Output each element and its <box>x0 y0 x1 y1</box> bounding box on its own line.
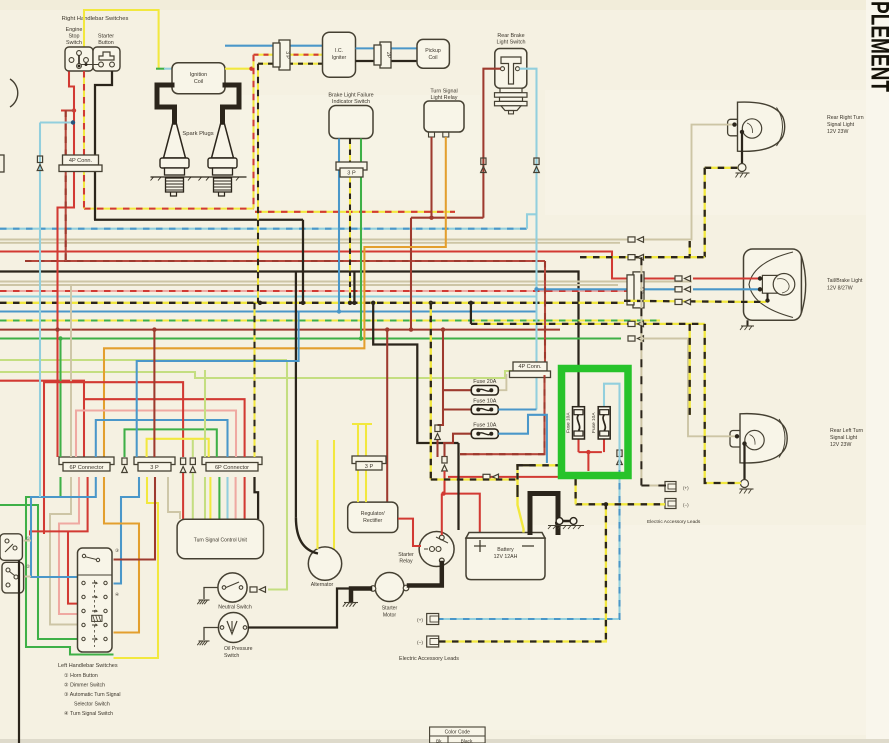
connector inline blue tail <box>675 287 691 293</box>
svg-text:Fuse 10A: Fuse 10A <box>591 412 597 433</box>
wire blue drop to 3P <box>137 312 299 458</box>
label brake light failure 2 <box>332 99 370 105</box>
svg-text:Fuse 10A: Fuse 10A <box>473 423 496 429</box>
wire blue branch right hook <box>114 477 140 584</box>
starter relay K2 <box>398 532 454 567</box>
wire yellow/black vertical x258 <box>257 64 259 303</box>
junction yellow/black x430 <box>429 301 433 305</box>
spark plug P2 <box>199 124 247 196</box>
connector inline pair x183 <box>180 458 186 473</box>
connector electric accessory lead plus right <box>665 482 689 492</box>
label selector switch <box>74 702 110 708</box>
wire blue to IC igniter <box>225 45 323 47</box>
wire light green neutral switch <box>268 360 287 590</box>
wire brown horizontal y330 <box>0 329 560 331</box>
connector electric accessory lead plus bottom <box>417 614 439 625</box>
wire dark red fuse 10A-3 feed <box>438 410 444 426</box>
svg-text:Coil: Coil <box>429 55 438 61</box>
svg-text:(+): (+) <box>683 486 689 491</box>
svg-text:Bk: Bk <box>436 739 442 743</box>
wire red engine stop down to 6P connector <box>61 72 74 111</box>
wire yellow/black failure switch <box>349 139 351 303</box>
svg-text:Light Relay: Light Relay <box>431 95 458 101</box>
junction yellow/black accessory <box>604 502 608 506</box>
wire red brown to regulator <box>386 330 388 503</box>
svg-text:Right Handlebar Switches: Right Handlebar Switches <box>62 16 129 22</box>
ground starter motor <box>343 603 358 607</box>
switch S3 rear brake light switch <box>495 49 528 114</box>
wire red junction green box <box>579 451 602 453</box>
svg-text:Left Handlebar Switches: Left Handlebar Switches <box>58 663 118 669</box>
wire light green to bowtie <box>192 440 194 457</box>
wire yellow/red right trunk horizontal <box>255 211 455 213</box>
svg-text:Igniter: Igniter <box>332 55 347 61</box>
wire yellow/black x689 lower <box>689 324 691 415</box>
connector 4P Conn left <box>59 155 102 172</box>
label rear brake light switch 2 <box>496 40 525 46</box>
junction black x373 <box>371 301 375 305</box>
svg-text:Spark Plugs: Spark Plugs <box>182 131 213 137</box>
connector inline pair fuse feed a <box>435 425 441 440</box>
wire black vertical x303 <box>302 220 304 303</box>
wire light green bowtie to unit <box>192 473 194 519</box>
ground neutral switch <box>197 600 209 604</box>
svg-text:12V 23W: 12V 23W <box>827 129 848 135</box>
wire yellow/black accessory minus right <box>576 503 665 505</box>
wire yellow/black vertical x705 up <box>704 168 706 257</box>
relay K1 turn signal light relay <box>424 101 464 132</box>
wire red 6P2 to unit <box>244 477 246 519</box>
wire yellow regulator 2 <box>365 470 367 502</box>
wire light blue horizontal to junction <box>40 121 73 123</box>
label turn signal light relay 2 <box>431 95 458 101</box>
svg-text:Color Code: Color Code <box>445 730 471 736</box>
switch S8 left handlebar switch block <box>78 548 121 652</box>
wire dark red above bowtie b <box>443 443 445 457</box>
wire red relay coil <box>398 519 421 546</box>
wire black rear right lamp ground <box>741 132 743 164</box>
wire yellow/black into tail light <box>624 301 766 302</box>
svg-text:Turn Signal Control Unit: Turn Signal Control Unit <box>194 538 248 544</box>
junction green failure <box>359 336 363 340</box>
wire grey horizontal y243 <box>0 242 620 244</box>
wire blue arch <box>96 420 228 457</box>
label rear brake light switch <box>497 33 524 39</box>
wire dark red horizontal y218 <box>411 217 483 219</box>
wire light green to 6P2 <box>204 370 206 457</box>
component brake light failure indicator switch U2 <box>329 106 373 139</box>
svg-text:③ Automatic Turn Signal: ③ Automatic Turn Signal <box>64 692 121 698</box>
terminal tail light yellow/black <box>765 298 769 302</box>
svg-text:3 P: 3 P <box>284 51 290 59</box>
cable battery minus to ground bolts <box>557 523 558 527</box>
wire orange conn1 right hook <box>104 477 139 633</box>
wire green stub into ignition coil <box>156 68 165 70</box>
wire red/dark dashed branch <box>66 110 74 112</box>
wire grey lamp feed rear left <box>643 339 739 437</box>
wire black drop to yellow/black feed <box>470 303 472 324</box>
label rear left turn signal 2 <box>830 435 858 441</box>
wire grey stub horn box <box>24 540 31 542</box>
svg-text:① Horn Button: ① Horn Button <box>64 673 98 679</box>
switch S5 oil pressure switch <box>218 613 252 660</box>
label PLEMENT vertical <box>866 1 889 92</box>
wire light blue rear brake switch right <box>520 69 537 410</box>
junction green x63 <box>58 336 62 340</box>
terminal tail light red <box>758 276 762 280</box>
wire yellow/red engine stop down <box>83 71 85 209</box>
wire red horizontal y477 <box>448 476 558 478</box>
wire light green stepped horizontal y372 <box>0 371 513 378</box>
switch S1 engine stop switch <box>65 47 93 71</box>
junction black x303 <box>301 301 305 305</box>
wire red junction to battery plus <box>442 494 480 533</box>
connector inline yellow/black tail <box>675 299 691 305</box>
wire yellow arch <box>147 439 209 457</box>
label auto turn signal <box>64 692 121 698</box>
wire yellow regulator 1 <box>357 470 359 502</box>
wire yellow/black link x689 upper <box>689 241 691 256</box>
wire pink arch <box>76 411 236 458</box>
connector inline pair x124 <box>122 458 128 473</box>
connector inline red tail <box>675 276 691 282</box>
wire yellow engine stop to coil top <box>84 10 159 69</box>
junction black x354 <box>352 301 356 305</box>
label tail brake light 2 <box>827 286 853 292</box>
connector inline neutral switch <box>250 587 266 593</box>
junction dark red fuse feed <box>441 327 445 331</box>
svg-text:Tail/Brake Light: Tail/Brake Light <box>827 278 863 284</box>
ground tail light <box>740 320 754 330</box>
svg-text:Indicator Switch: Indicator Switch <box>332 99 370 105</box>
connector 3P bottom <box>134 457 175 471</box>
wire yellow alternator 2 <box>333 440 335 549</box>
wire red drop under green border <box>587 452 589 471</box>
alternator G1 <box>308 547 341 588</box>
svg-text:Starter: Starter <box>382 606 398 612</box>
wire red arch 2 <box>84 399 245 457</box>
wire yellow/black to ignition cable <box>431 478 518 480</box>
junction dark red on brown line <box>409 327 413 331</box>
svg-text:Ignition: Ignition <box>190 72 207 78</box>
wire grey to rear right lamp <box>627 239 629 241</box>
wire blue horizontal y311 <box>0 310 537 312</box>
fuse F5 10A vertical <box>591 407 610 439</box>
battery BT1 <box>466 533 545 580</box>
svg-text:3 P: 3 P <box>347 171 356 177</box>
connector inline green y338 <box>628 336 644 342</box>
component pickup coil L1 <box>417 39 449 68</box>
label right handlebar switches <box>62 16 129 22</box>
wire black main horizontal y220 <box>94 219 303 221</box>
wire light blue stub into ignition coil <box>164 68 172 70</box>
wire black vertical x296 <box>295 272 297 518</box>
label electric accessory leads bottom <box>399 656 459 662</box>
wire red main horizontal y251 <box>0 252 676 279</box>
component partial connector left edge <box>0 155 4 172</box>
wire yellow diagonal to battery <box>518 480 524 533</box>
connector 6P number1 <box>59 457 114 471</box>
highlight green box <box>562 369 629 476</box>
connector electric accessory lead minus bottom <box>417 636 439 647</box>
label starter button 2 <box>98 40 114 46</box>
lamp rear left turn signal light <box>730 414 787 463</box>
label brake light failure <box>328 93 373 99</box>
label rear left turn signal 3 <box>830 442 851 448</box>
svg-text:Signal Light: Signal Light <box>830 435 858 441</box>
svg-text:Switch: Switch <box>66 40 82 46</box>
wire blue dashed main horizontal y229 <box>0 228 527 230</box>
switch S2 starter button <box>81 47 120 71</box>
connector 6P number2 <box>202 457 262 471</box>
svg-text:6P Connector: 6P Connector <box>215 465 249 471</box>
wire grey stub dimmer box <box>24 576 31 578</box>
wire yellow coil to right trunk <box>225 68 254 70</box>
connector inline grey rear right <box>628 237 644 243</box>
wire light blue horizontal y296 <box>0 295 537 297</box>
lamp rear right turn signal light <box>728 102 785 151</box>
wire yellow/black drop to 6P2 <box>253 303 255 457</box>
wire grey 4P conn to fuse 20A <box>498 374 506 390</box>
component regulator rectifier U3 <box>348 502 398 532</box>
junction light blue to tail light <box>534 287 538 291</box>
wire yellow conn up 1 <box>357 424 359 456</box>
cable HT lead right spark plug <box>223 85 240 124</box>
connector 4P Conn middle <box>510 362 551 378</box>
junction black x470 <box>469 301 473 305</box>
svg-text:Fuse 10A: Fuse 10A <box>566 412 572 433</box>
svg-text:Regulator/: Regulator/ <box>361 511 385 517</box>
svg-text:Brake Light Failure: Brake Light Failure <box>328 93 373 99</box>
label dimmer switch <box>64 683 105 689</box>
wire dark red below 4P conn <box>460 375 545 454</box>
wire black bulb stub tail <box>767 293 769 300</box>
wire grey conn1 hook to block <box>50 477 77 625</box>
connector inline yellow/black y258 <box>628 254 644 260</box>
svg-text:Button: Button <box>98 40 114 46</box>
wire dark red below bowtie a <box>436 440 438 457</box>
svg-text:Rear Brake: Rear Brake <box>497 33 524 39</box>
fuse F1 20A <box>471 379 498 395</box>
wire black horn lead off page <box>18 560 20 743</box>
wire green left edge to block <box>0 505 77 639</box>
wire yellow/black harness to battery area <box>430 303 432 480</box>
wire dark red fuse3 bracket <box>443 434 471 443</box>
junction red battery feed <box>441 491 445 495</box>
wire yellow/black main horizontal y303 <box>0 302 624 304</box>
ground bolts engine <box>548 518 584 531</box>
label turn signal light relay <box>430 89 457 95</box>
svg-text:3 P: 3 P <box>365 464 374 470</box>
fuse F4 10A vertical <box>566 407 585 439</box>
label engine stop switch 2 <box>68 34 79 40</box>
wire green horizontal y338 <box>0 337 621 339</box>
svg-text:Fuse 20A: Fuse 20A <box>473 379 496 385</box>
wire red conn1 hook to block <box>30 477 88 535</box>
terminals turn signal relay <box>429 132 449 137</box>
wire red/black dashed vertical x545 <box>544 261 546 363</box>
junction dark red x57 <box>55 327 59 331</box>
connector inline light blue x619 <box>617 450 623 465</box>
junction red engine stop <box>72 108 76 112</box>
svg-text:(−): (−) <box>683 503 689 508</box>
connector 3P top <box>273 40 290 70</box>
label engine stop switch 3 <box>66 40 82 46</box>
wire dark red relay down <box>430 137 432 218</box>
wire grey 3P down <box>168 477 180 519</box>
junction yellow/black x263 <box>258 301 262 305</box>
junction dark red relay wire <box>429 216 433 220</box>
wire red below vertical fuse 2 <box>603 439 605 452</box>
wire red vertical to 6P connector <box>58 111 75 458</box>
wire grey horizontal y285 <box>0 284 618 286</box>
svg-text:Electric Accessory Leads: Electric Accessory Leads <box>399 656 459 662</box>
component IC igniter U1 <box>323 32 356 77</box>
wire black rear left ground <box>743 444 745 480</box>
wire yellow/red engine-stop to 3P-conn horizontal <box>84 208 254 210</box>
wire black curve to alternator <box>296 517 318 553</box>
label rear left turn signal <box>830 428 863 434</box>
svg-text:② Dimmer Switch: ② Dimmer Switch <box>64 683 105 689</box>
wire yellow/black to rear right ground <box>705 167 738 169</box>
svg-text:12V 23W: 12V 23W <box>830 442 851 448</box>
wire pink 6P2 to unit <box>235 477 237 519</box>
cable thick black U <box>530 494 558 533</box>
svg-text:12V 8/27W: 12V 8/27W <box>827 286 853 292</box>
svg-text:Selector Switch: Selector Switch <box>74 702 110 708</box>
connector inline red y477 <box>483 474 499 480</box>
wire yellow/black to IC igniter <box>258 63 323 65</box>
wire red horizontal y381 <box>0 381 84 457</box>
svg-text:Relay: Relay <box>399 559 413 565</box>
wire red bowtie to unit <box>182 473 184 519</box>
terminal rear right lamp <box>732 122 736 126</box>
wire black starter button down <box>95 71 112 220</box>
wire orange relay down <box>104 137 446 457</box>
wire green 6P2 to unit <box>218 477 220 519</box>
svg-text:Pickup: Pickup <box>425 48 441 54</box>
svg-text:Rectifier: Rectifier <box>363 518 382 524</box>
wire dark red 3P to block <box>114 477 156 560</box>
connector 4P right <box>627 272 644 308</box>
connector inline light blue x536 <box>534 158 540 173</box>
svg-text:2P: 2P <box>385 52 391 59</box>
label rear right turn signal <box>827 115 864 121</box>
wire red hook into block <box>68 531 77 603</box>
component ignition coil T1 <box>172 63 225 94</box>
svg-text:6P Connector: 6P Connector <box>69 465 103 471</box>
cable black relay to starter motor <box>409 563 442 586</box>
terminal rear left lamp <box>735 434 739 438</box>
terminal tail light blue <box>758 287 762 291</box>
wire light blue into blue manifold <box>39 495 41 497</box>
svg-text:Switch: Switch <box>224 653 239 659</box>
wire yellow/black up to fuse area <box>518 465 559 479</box>
wire blue manifold y497 <box>31 477 96 577</box>
wire yellow 6P2 to unit <box>209 477 211 519</box>
connector inline light blue x40 <box>37 156 43 171</box>
svg-text:Signal Light: Signal Light <box>827 122 855 128</box>
wire red arch 1 <box>44 382 183 534</box>
wire blue to tail light <box>537 288 677 290</box>
svg-text:Starter: Starter <box>398 552 414 558</box>
wire green failure switch <box>360 139 362 339</box>
wire oil pressure ground lead <box>204 628 218 641</box>
wire grey/black accessory plus right <box>641 485 666 487</box>
junction brown regulator <box>385 327 389 331</box>
wire black horizontal y271 <box>0 272 579 407</box>
label rear right turn signal 2 <box>827 122 855 128</box>
svg-text:Oil Pressure: Oil Pressure <box>224 646 253 652</box>
wire black vertical x354 up <box>353 272 355 303</box>
wire red to ring junction <box>443 471 445 494</box>
wire neutral switch ground lead <box>204 588 218 600</box>
label starter button <box>98 34 114 40</box>
svg-text:Alternator: Alternator <box>311 582 334 588</box>
ground oil pressure switch <box>197 641 209 645</box>
wire blue into tail light <box>693 288 760 290</box>
wire yellow/black horizontal y257 <box>580 256 705 258</box>
wire black vertical x458 <box>457 443 459 530</box>
wire red into tail light <box>693 277 760 279</box>
wire red relay to junction <box>441 494 443 535</box>
svg-text:Neutral Switch: Neutral Switch <box>218 605 252 611</box>
wire green from junction to 6P <box>59 339 61 458</box>
svg-text:Starter: Starter <box>98 34 114 40</box>
svg-text:Light Switch: Light Switch <box>496 40 525 46</box>
wire yellow/red drop to 3P <box>153 330 155 457</box>
table color code <box>430 727 486 743</box>
wire light blue vertical left x40 <box>39 123 41 496</box>
wire red/black dashed horizontal y261 <box>25 260 545 262</box>
wire grey/black accessory vertical x641 <box>640 257 642 485</box>
junction blue failure <box>337 309 341 313</box>
wire red/black dashed vertical x66 <box>65 111 67 262</box>
wire green/yellow dashed horizontal y320 <box>0 319 660 321</box>
connector 2P <box>374 42 391 68</box>
switch S7 dimmer switch <box>2 562 31 593</box>
wire black igniter to pickup coil <box>356 60 450 62</box>
switch S4 neutral switch <box>218 573 252 611</box>
svg-text:(−): (−) <box>417 640 423 646</box>
cable HT lead left spark plug <box>157 85 175 124</box>
label rear right turn signal 3 <box>827 129 848 135</box>
wire blue fuse2 right <box>498 408 536 410</box>
connector inline dark red x483 <box>481 158 487 173</box>
svg-text:Black: Black <box>461 739 473 743</box>
svg-text:④ Turn Signal Switch: ④ Turn Signal Switch <box>64 711 113 717</box>
wire yellow vertical x317 <box>316 440 318 549</box>
connector 3P alternator <box>352 456 386 470</box>
terminal rear left bulb <box>742 441 746 445</box>
wire black dash segment on ignition lead <box>516 485 518 497</box>
wire black oil pressure switch <box>248 589 352 628</box>
wire light green 6P2 to unit <box>204 477 206 519</box>
svg-text:Engine: Engine <box>66 27 83 33</box>
wire pink conn1 hook to block <box>59 477 79 614</box>
terminal rear right bulb <box>740 130 744 134</box>
wire yellow stub up under green box <box>574 479 576 504</box>
cable black starter motor ground <box>351 589 370 602</box>
component partial speedometer left edge <box>10 79 18 107</box>
wire grey drop to 6P <box>70 285 72 457</box>
wire grey horizontal y239 to rear right signal <box>0 239 628 241</box>
wire green conn1 under block <box>26 477 114 655</box>
wire dark red rear brake switch left <box>483 69 500 218</box>
spark plug P1 <box>151 124 199 196</box>
junction yellow/black failure <box>348 301 352 305</box>
wire blue fuse3 right <box>498 415 547 463</box>
